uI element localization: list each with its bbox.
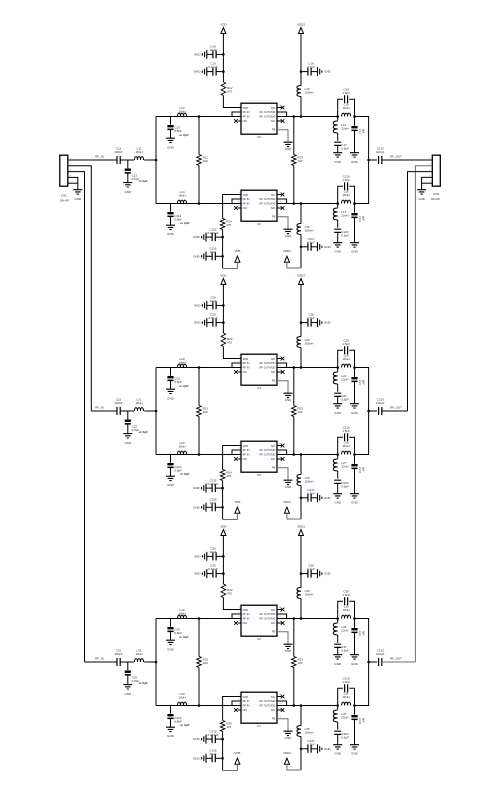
- wire RF input line block1: [68, 159, 117, 161]
- svg-text:RF OUT/VDD: RF OUT/VDD: [260, 115, 276, 119]
- svg-text:U3: U3: [257, 222, 261, 226]
- wire CN2 pin5 gnd: [422, 182, 433, 184]
- svg-text:7: 7: [279, 196, 281, 198]
- wire upper branch input block3: [156, 618, 232, 620]
- svg-text:100nH: 100nH: [305, 342, 314, 346]
- wire combiner lower block2: [355, 411, 369, 455]
- svg-text:6: 6: [279, 365, 281, 367]
- wire VDD arrow lower block3: [223, 766, 238, 770]
- svg-text:100pF: 100pF: [114, 652, 123, 656]
- node combiner block2: [367, 410, 370, 413]
- ground shunt B lower block3: [350, 745, 359, 749]
- wire splitter vertical block2: [155, 368, 157, 455]
- capacitor C317 4.7uF: [301, 748, 308, 750]
- svg-text:N/C: N/C: [243, 457, 248, 461]
- svg-text:GND: GND: [351, 501, 359, 505]
- svg-text:VDD2: VDD2: [297, 274, 305, 278]
- svg-text:RF OUT/VDD: RF OUT/VDD: [260, 202, 276, 206]
- node loop left lower block3: [336, 704, 339, 707]
- svg-text:or 0pF: or 0pF: [180, 472, 189, 476]
- svg-text:0.01uF: 0.01uF: [208, 65, 218, 69]
- svg-text:6pF: 6pF: [361, 129, 365, 134]
- wire RF out line block1: [382, 159, 433, 161]
- svg-text:GND: GND: [167, 483, 175, 487]
- capacitor C35 0.01uF: [216, 573, 223, 575]
- ground input shunt block3: [123, 685, 132, 689]
- svg-text:U6: U6: [257, 637, 261, 641]
- svg-text:6pF: 6pF: [361, 631, 365, 636]
- capacitor C27 0.5pF shunt upper: [334, 393, 341, 396]
- U6 right NC stubs: [277, 609, 282, 611]
- inductor L12 22nH shunt upper: [337, 117, 339, 121]
- U7 pin1 stub: [238, 696, 241, 698]
- ground C15: [202, 67, 206, 76]
- svg-text:RF IN: RF IN: [243, 699, 250, 703]
- node loop right upper block3: [353, 617, 356, 620]
- svg-text:9: 9: [279, 717, 281, 719]
- svg-text:GND: GND: [193, 235, 201, 239]
- svg-text:GND: GND: [167, 397, 175, 401]
- ground upper shunt block2: [166, 389, 175, 393]
- wire input cap to shunt block1: [120, 159, 134, 161]
- node loop right lower block3: [353, 704, 356, 707]
- svg-text:RF IN: RF IN: [243, 612, 250, 616]
- inductor L13 18nH upper: [178, 113, 187, 116]
- U5 input jumper pins: [232, 450, 241, 455]
- svg-text:18nH: 18nH: [343, 106, 350, 110]
- svg-text:PB: PB: [272, 379, 276, 383]
- svg-text:1: 1: [238, 607, 240, 609]
- wire RF out to cap block2: [369, 410, 378, 412]
- svg-text:0.033uF: 0.033uF: [207, 482, 218, 486]
- svg-text:N/C: N/C: [271, 708, 276, 712]
- svg-text:PB: PB: [272, 215, 276, 219]
- svg-text:or 0pF: or 0pF: [139, 681, 148, 685]
- svg-text:GND: GND: [194, 70, 202, 74]
- svg-text:18nH: 18nH: [178, 361, 185, 365]
- svg-text:RF IN: RF IN: [243, 617, 250, 621]
- node VDD cap1 block3: [222, 555, 225, 558]
- svg-text:VPB: VPB: [234, 249, 240, 253]
- wire VDD down block2: [222, 287, 224, 334]
- wire U2 output line: [287, 116, 338, 118]
- svg-text:C114: C114: [358, 216, 362, 223]
- svg-text:RF OUT/VDD: RF OUT/VDD: [260, 197, 276, 201]
- U6 PB wire to ground: [277, 632, 288, 644]
- op-amp U6 box: [241, 605, 277, 636]
- U4 pin4 stub NC: [238, 371, 241, 373]
- svg-text:18nH: 18nH: [135, 150, 142, 154]
- svg-text:2: 2: [238, 447, 240, 449]
- svg-text:RF OUT/VDD: RF OUT/VDD: [260, 448, 276, 452]
- svg-text:GND: GND: [167, 648, 175, 652]
- svg-text:U4: U4: [257, 386, 261, 390]
- svg-text:GND: GND: [285, 234, 293, 238]
- svg-text:RF OUT/VDD: RF OUT/VDD: [260, 110, 276, 114]
- svg-text:10uF: 10uF: [210, 48, 217, 52]
- svg-text:18nH: 18nH: [178, 696, 185, 700]
- node loop right upper block2: [353, 366, 356, 369]
- wire R24 down block2: [222, 481, 224, 520]
- wire pin1 U7 to R34: [223, 697, 238, 721]
- U4 output jumper pins: [277, 363, 287, 368]
- svg-text:RF IN: RF IN: [243, 361, 250, 365]
- capacitor C217 4.7uF: [301, 497, 308, 499]
- capacitor C39 1.5pF parallel upper: [338, 601, 343, 618]
- ground lower shunt block3: [166, 727, 175, 731]
- svg-text:3: 3: [238, 452, 240, 454]
- capacitor C19 1.5pF parallel upper: [338, 99, 343, 116]
- U2 PB wire to ground: [277, 130, 288, 142]
- svg-text:N/C: N/C: [271, 119, 276, 123]
- svg-text:RF_IN: RF_IN: [95, 406, 104, 410]
- capacitor C315 0.033uF: [215, 738, 222, 740]
- svg-text:VDD2: VDD2: [297, 23, 305, 27]
- svg-text:GND: GND: [124, 441, 132, 445]
- svg-text:GND: GND: [324, 245, 332, 249]
- inductor L21 18nH input: [135, 408, 144, 411]
- svg-text:22nH: 22nH: [341, 127, 348, 131]
- svg-text:RF OUT/VDD: RF OUT/VDD: [260, 699, 276, 703]
- svg-text:RF IN: RF IN: [243, 453, 250, 457]
- capacitor C210 100pF output: [379, 407, 382, 415]
- svg-text:RF_OUT: RF_OUT: [390, 406, 402, 410]
- node loop right lower block2: [353, 453, 356, 456]
- U2 pin4 stub NC: [238, 120, 241, 122]
- wire VDD2 arrow lower block1: [287, 264, 301, 268]
- svg-text:GND: GND: [167, 146, 175, 150]
- wire CN2 pin4 gnd: [422, 177, 433, 189]
- inductor L25 100nH bias lower: [300, 455, 302, 475]
- svg-text:0.5pF: 0.5pF: [341, 398, 349, 402]
- ground input shunt block2: [123, 434, 132, 438]
- ground PB U5: [284, 480, 293, 484]
- svg-text:GND: GND: [351, 250, 359, 254]
- svg-text:RF IN: RF IN: [243, 448, 250, 452]
- svg-text:10uF: 10uF: [210, 250, 217, 254]
- inductor L19 18nH series upper: [342, 113, 351, 116]
- wire CN1 pin1 RF in: [67, 159, 69, 161]
- svg-text:1: 1: [238, 192, 240, 194]
- svg-text:1.5pF: 1.5pF: [342, 429, 350, 433]
- svg-text:6: 6: [279, 452, 281, 454]
- svg-text:4: 4: [238, 456, 240, 458]
- svg-text:2: 2: [238, 611, 240, 613]
- U3 PB wire to ground: [277, 217, 288, 229]
- svg-text:U2: U2: [257, 135, 261, 139]
- capacitor C313 shunt lower: [170, 706, 172, 714]
- wire input to splitter block3: [144, 661, 156, 663]
- wire U7 output line: [287, 705, 338, 707]
- ground shunt A upper block3: [333, 655, 342, 659]
- svg-text:DH-6P: DH-6P: [431, 197, 440, 201]
- svg-text:GND: GND: [334, 752, 342, 756]
- svg-text:100pF: 100pF: [114, 401, 123, 405]
- svg-text:GND: GND: [285, 147, 293, 151]
- svg-text:100nH: 100nH: [305, 91, 314, 95]
- wire R12 to pin1: [223, 96, 237, 108]
- svg-text:RF IN: RF IN: [243, 197, 250, 201]
- capacitor C12 shunt input: [127, 160, 129, 168]
- svg-text:4: 4: [238, 369, 240, 371]
- ground CN1: [73, 190, 82, 194]
- inductor L37 22nH shunt lower: [337, 706, 339, 710]
- ground PB U3: [284, 229, 293, 233]
- node R in bottom block2: [198, 453, 201, 456]
- wire upper to combiner block3: [355, 619, 369, 663]
- wire U3 output line: [287, 203, 338, 205]
- inductor L36 18nH series lower: [342, 702, 351, 705]
- svg-text:7: 7: [279, 447, 281, 449]
- node lower cap1 block2: [221, 487, 224, 490]
- wire splitter vertical block1: [155, 117, 157, 204]
- capacitor C220 0.5pF shunt lower: [334, 480, 341, 483]
- node lower cap1 block1: [221, 236, 224, 239]
- svg-text:C34: C34: [358, 631, 362, 636]
- svg-text:GND: GND: [193, 505, 201, 509]
- resistor R32 475: [221, 584, 226, 598]
- U4 input jumper pins 2-3: [232, 363, 241, 368]
- svg-text:22nH: 22nH: [341, 716, 348, 720]
- svg-text:7: 7: [279, 360, 281, 362]
- wire VDD down block3: [222, 538, 224, 585]
- op-amp U5 box: [241, 441, 277, 472]
- svg-text:9: 9: [279, 379, 281, 381]
- U7 right NC stubs: [277, 696, 282, 698]
- svg-text:9: 9: [279, 215, 281, 217]
- svg-text:100pF: 100pF: [376, 652, 385, 656]
- inductor L34 18nH lower: [178, 702, 187, 705]
- capacitor C21 100pF input: [117, 407, 120, 415]
- svg-text:GND: GND: [324, 321, 332, 325]
- capacitor C18 4.7uF: [301, 71, 308, 73]
- svg-text:or 0pF: or 0pF: [139, 430, 148, 434]
- svg-text:RF IN: RF IN: [243, 704, 250, 708]
- node bias to RF out upper block2: [300, 366, 303, 369]
- node loop right lower block1: [353, 202, 356, 205]
- svg-text:475: 475: [226, 223, 231, 227]
- node R out top block2: [293, 366, 296, 369]
- node splitter block1: [155, 159, 158, 162]
- svg-text:VDD: VDD: [243, 106, 249, 110]
- svg-text:6: 6: [279, 703, 281, 705]
- svg-text:100pF: 100pF: [376, 150, 385, 154]
- node R out bottom block2: [293, 453, 296, 456]
- capacitor C15 0.01uF: [216, 71, 223, 73]
- capacitor C214 6pF shunt lower: [354, 455, 356, 464]
- node bias to RF out upper block3: [300, 617, 303, 620]
- capacitor C34 6pF shunt upper: [354, 619, 356, 628]
- ground C317: [318, 744, 322, 753]
- svg-text:0.033uF: 0.033uF: [207, 733, 218, 737]
- node lower bias cap block3: [300, 748, 303, 751]
- U3 input jumper pins: [232, 199, 241, 204]
- ground shunt B upper block1: [350, 153, 359, 157]
- capacitor C26 10uF: [216, 304, 223, 306]
- svg-text:18nH: 18nH: [343, 444, 350, 448]
- connector CN2 body: [432, 155, 440, 186]
- svg-text:475: 475: [227, 90, 232, 94]
- svg-text:4.7uF: 4.7uF: [307, 743, 315, 747]
- node VDD2 cap block3: [300, 572, 303, 575]
- ground C16: [202, 50, 206, 59]
- wire lower branch input block1: [156, 203, 232, 205]
- ground C115: [202, 233, 206, 242]
- inductor L30 100nH bias: [297, 588, 301, 599]
- ground shunt A upper block1: [333, 153, 342, 157]
- svg-text:GND: GND: [167, 232, 175, 236]
- ground shunt B lower block2: [350, 494, 359, 498]
- node lower cap2 block1: [221, 255, 224, 258]
- capacitor C13 shunt upper: [170, 117, 172, 125]
- svg-text:10uF: 10uF: [210, 501, 217, 505]
- node bias to RF out lower block1: [300, 202, 303, 205]
- svg-text:4: 4: [238, 118, 240, 120]
- svg-text:RF_OUT: RF_OUT: [390, 657, 402, 661]
- ground C216: [202, 503, 206, 512]
- svg-text:RF IN: RF IN: [243, 115, 250, 119]
- svg-text:7: 7: [279, 611, 281, 613]
- inductor L39 18nH series upper: [342, 615, 351, 618]
- wire RF out line block3: [382, 661, 416, 663]
- wire RF out to cap block3: [369, 661, 378, 663]
- node combiner block3: [367, 661, 370, 664]
- svg-text:100: 100: [203, 661, 208, 665]
- wire RF out line block2: [382, 410, 408, 412]
- svg-text:18nH: 18nH: [343, 193, 350, 197]
- svg-text:475: 475: [227, 592, 232, 596]
- svg-text:7: 7: [279, 698, 281, 700]
- svg-text:100nH: 100nH: [305, 593, 314, 597]
- connector CN1 body: [60, 155, 68, 186]
- inductor L27 22nH shunt lower: [337, 455, 339, 459]
- svg-text:100nH: 100nH: [305, 229, 314, 233]
- wire VDD down block1: [222, 36, 224, 83]
- ground C26: [202, 301, 206, 310]
- ground lower shunt block1: [166, 225, 175, 229]
- svg-text:VPB: VPB: [234, 500, 240, 504]
- wire U5 output line: [287, 454, 338, 456]
- svg-text:or 0pF: or 0pF: [180, 723, 189, 727]
- node R in bottom block1: [198, 202, 201, 205]
- svg-text:1.5pF: 1.5pF: [342, 680, 350, 684]
- wire VDD2 down block1: [300, 36, 302, 86]
- node lower cap1 block3: [221, 738, 224, 741]
- op-amp U7 box: [241, 692, 277, 723]
- U3 pin4 stub NC: [238, 207, 241, 209]
- wire CN1 pin3 to bottom block: [68, 172, 85, 662]
- node splitter block2: [155, 410, 158, 413]
- U5 PB wire to ground: [277, 468, 288, 480]
- svg-text:N/C: N/C: [271, 357, 276, 361]
- capacitor C17 0.5pF shunt upper: [334, 142, 341, 145]
- capacitor C119 1.5pF parallel lower: [338, 186, 343, 203]
- svg-text:VDD: VDD: [220, 525, 227, 529]
- wire CN1 pin2 to mid block: [68, 166, 92, 411]
- op-amp U4 box: [241, 354, 277, 385]
- ground C38: [318, 569, 322, 578]
- wire input to splitter block2: [144, 410, 156, 412]
- ground input shunt block1: [123, 183, 132, 187]
- node VDD2 cap block2: [300, 321, 303, 324]
- svg-text:4.7uF: 4.7uF: [307, 567, 315, 571]
- capacitor C28 4.7uF: [301, 322, 308, 324]
- svg-text:N/C: N/C: [271, 370, 276, 374]
- inductor L10 100nH bias: [297, 86, 301, 97]
- svg-text:3: 3: [238, 114, 240, 116]
- svg-text:18nH: 18nH: [343, 608, 350, 612]
- inductor L26 18nH series lower: [342, 451, 351, 454]
- U2 output jumper pins: [277, 112, 287, 117]
- svg-text:RF_IN: RF_IN: [95, 155, 104, 159]
- svg-text:1: 1: [238, 105, 240, 107]
- svg-text:N/C: N/C: [271, 193, 276, 197]
- U7 pin4 stub NC: [238, 709, 241, 711]
- wire upper to combiner block2: [355, 368, 369, 412]
- capacitor C310 100pF output: [379, 658, 382, 666]
- svg-text:RF_OUT: RF_OUT: [390, 155, 402, 159]
- wire combiner lower block3: [355, 662, 369, 706]
- node R in bottom block3: [198, 704, 201, 707]
- svg-text:100pF: 100pF: [376, 401, 385, 405]
- inductor L16 18nH series lower: [342, 200, 351, 203]
- U6 pin1 stub: [238, 609, 241, 611]
- svg-text:C14: C14: [358, 129, 362, 134]
- svg-text:GND: GND: [194, 321, 202, 325]
- resistor R34 475: [220, 721, 225, 732]
- svg-text:3: 3: [238, 365, 240, 367]
- node loop left upper block3: [336, 617, 339, 620]
- ground shunt B upper block2: [350, 404, 359, 408]
- svg-text:10uF: 10uF: [210, 752, 217, 756]
- svg-text:or 0pF: or 0pF: [179, 635, 188, 639]
- svg-text:VDD: VDD: [220, 23, 227, 27]
- svg-text:6pF: 6pF: [361, 467, 365, 472]
- svg-text:18nH: 18nH: [343, 357, 350, 361]
- ground lower shunt block2: [166, 476, 175, 480]
- svg-text:RF OUT/VDD: RF OUT/VDD: [260, 366, 276, 370]
- inductor L24 18nH lower: [178, 451, 187, 454]
- svg-text:GND: GND: [351, 662, 359, 666]
- svg-text:C24: C24: [358, 380, 362, 385]
- svg-text:1: 1: [238, 694, 240, 696]
- svg-text:N/C: N/C: [243, 708, 248, 712]
- svg-text:18nH: 18nH: [135, 652, 142, 656]
- svg-text:3: 3: [238, 201, 240, 203]
- wire lower branch input block3: [156, 705, 232, 707]
- svg-text:N/C: N/C: [243, 119, 248, 123]
- U6 pin4 stub NC: [238, 622, 241, 624]
- svg-text:1.5pF: 1.5pF: [342, 91, 350, 95]
- svg-text:100: 100: [203, 159, 208, 163]
- svg-text:PB: PB: [272, 128, 276, 132]
- U5 pin4 stub NC: [238, 458, 241, 460]
- svg-text:GND: GND: [193, 254, 201, 258]
- node lower cap2 block3: [221, 757, 224, 760]
- svg-text:6pF: 6pF: [361, 380, 365, 385]
- svg-text:4: 4: [238, 620, 240, 622]
- U3 pin1 stub: [238, 194, 241, 196]
- svg-text:9: 9: [279, 466, 281, 468]
- svg-text:475: 475: [227, 341, 232, 345]
- wire VDD2 arrow lower block3: [287, 766, 301, 770]
- capacitor C11 100pF input: [117, 156, 120, 164]
- U7 PB wire to ground: [277, 719, 288, 731]
- svg-text:6pF: 6pF: [361, 216, 365, 221]
- ground C28: [318, 318, 322, 327]
- ground C25: [202, 318, 206, 327]
- svg-text:0.033uF: 0.033uF: [207, 231, 218, 235]
